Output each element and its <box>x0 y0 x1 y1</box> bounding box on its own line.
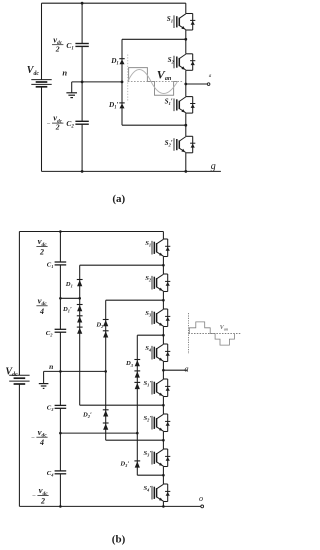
svg-text:g: g <box>211 161 216 172</box>
svg-text:D3′: D3′ <box>119 460 129 468</box>
svg-text:D2′: D2′ <box>82 411 92 419</box>
svg-text:(a): (a) <box>112 193 125 205</box>
svg-text:4: 4 <box>39 438 44 447</box>
svg-text:2: 2 <box>39 248 44 257</box>
svg-text:(b): (b) <box>112 534 126 546</box>
svg-text:Van: Van <box>220 325 229 332</box>
svg-text:o: o <box>199 494 203 503</box>
svg-text:a: a <box>184 363 188 373</box>
svg-text:2: 2 <box>55 44 60 53</box>
svg-text:a: a <box>209 73 212 79</box>
svg-text:4: 4 <box>39 307 44 316</box>
svg-text:−: − <box>31 435 35 442</box>
svg-text:−: − <box>32 493 36 500</box>
svg-text:2: 2 <box>55 123 60 132</box>
svg-text:n: n <box>62 68 67 78</box>
svg-text:D1′: D1′ <box>62 306 72 314</box>
svg-text:−: − <box>47 121 51 128</box>
svg-text:2: 2 <box>40 497 45 506</box>
svg-text:n: n <box>49 362 53 371</box>
